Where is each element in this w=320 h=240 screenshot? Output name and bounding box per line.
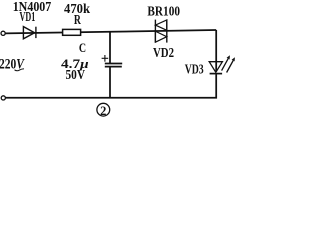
svg-text:VD3: VD3 bbox=[185, 62, 204, 77]
svg-text:2: 2 bbox=[100, 104, 106, 118]
svg-text:C: C bbox=[79, 41, 86, 55]
svg-text:220V: 220V bbox=[0, 57, 25, 73]
svg-text:VD2: VD2 bbox=[153, 45, 174, 60]
svg-text:50V: 50V bbox=[66, 67, 86, 82]
svg-text:VD1: VD1 bbox=[20, 9, 36, 24]
svg-text:R: R bbox=[74, 12, 82, 27]
svg-text:BR100: BR100 bbox=[147, 4, 180, 19]
